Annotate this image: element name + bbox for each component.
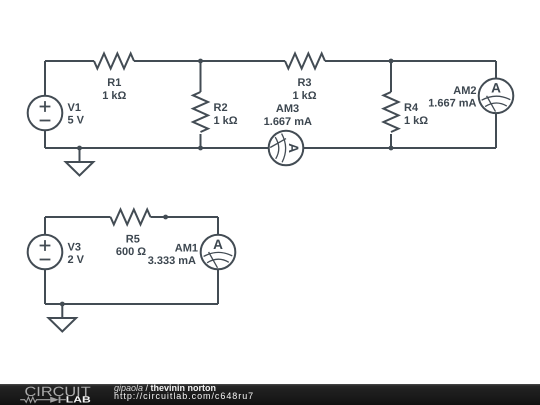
svg-text:R3: R3 — [297, 77, 311, 89]
svg-text:LAB: LAB — [66, 395, 92, 405]
ammeter AM3 — [269, 131, 304, 166]
svg-text:1 kΩ: 1 kΩ — [292, 90, 316, 102]
svg-text:AM2: AM2 — [453, 85, 476, 97]
svg-text:5 V: 5 V — [68, 114, 85, 126]
node dot R5 output — [163, 215, 168, 220]
wire R2 top lead — [200, 61, 202, 92]
svg-text:R1: R1 — [107, 77, 121, 89]
wire bottom rail of lower loop — [45, 303, 218, 305]
svg-text:A: A — [213, 237, 223, 252]
svg-text:R4: R4 — [404, 102, 419, 114]
wire AM1 top lead — [217, 217, 219, 235]
ammeter AM1 — [201, 235, 236, 270]
svg-text:A: A — [491, 81, 501, 96]
wire V1 bottom lead — [44, 130, 46, 148]
wire R2 bottom lead — [200, 134, 202, 148]
ground G2 — [49, 304, 77, 332]
CircuitLab logo — [0, 384, 110, 405]
svg-text:3.333 mA: 3.333 mA — [148, 255, 196, 267]
footer title text — [114, 384, 216, 393]
voltage source V1 — [28, 96, 63, 131]
svg-text:V1: V1 — [68, 102, 81, 114]
wire V3 bottom lead — [44, 269, 46, 304]
svg-text:A: A — [286, 143, 301, 153]
wire R4 bottom lead — [390, 134, 392, 148]
svg-text:1.667 mA: 1.667 mA — [428, 97, 476, 109]
wire AM2 bottom lead — [495, 113, 497, 148]
resistor R4 — [384, 92, 399, 132]
node dot top rail at R4 — [389, 59, 394, 64]
svg-text:1 kΩ: 1 kΩ — [102, 90, 126, 102]
wire top rail R3 to node B — [325, 60, 391, 62]
wire top rail node A to R3 — [201, 60, 286, 62]
svg-text:R5: R5 — [126, 233, 140, 245]
footer bar — [0, 384, 540, 405]
svg-text:AM1: AM1 — [175, 242, 198, 254]
resistor R5 — [111, 210, 151, 225]
wire top rail node B to right corner — [391, 60, 496, 62]
wire bottom rail right of AM3 — [303, 147, 496, 149]
node dot ground G2 — [60, 302, 65, 307]
svg-text:2 V: 2 V — [68, 254, 85, 266]
wire R4 top lead — [390, 61, 392, 92]
wire AM1 bottom lead — [217, 269, 219, 304]
svg-text:V3: V3 — [68, 241, 81, 253]
wire V1 top lead — [44, 61, 46, 96]
wire top rail V3 to R5 — [45, 216, 111, 218]
wire AM2 top lead — [495, 61, 497, 79]
svg-text:AM3: AM3 — [276, 103, 299, 115]
node dot bottom rail at R4 — [389, 146, 394, 151]
resistor R3 — [285, 54, 325, 69]
wire top rail R5 to AM1 corner — [151, 216, 219, 218]
wire top rail V1 to R1 — [45, 60, 94, 62]
svg-text:R2: R2 — [214, 102, 228, 114]
node dot top rail at R2 — [198, 59, 203, 64]
wire bottom rail left of AM3 — [45, 147, 269, 149]
node dot bottom rail at R2 — [198, 146, 203, 151]
svg-text:1.667 mA: 1.667 mA — [264, 116, 312, 128]
voltage source V3 — [28, 235, 63, 270]
svg-text:1 kΩ: 1 kΩ — [404, 115, 428, 127]
footer url text — [114, 392, 254, 401]
resistor R2 — [193, 92, 208, 132]
ground G1 — [66, 148, 94, 176]
wire top rail R1 to node A — [134, 60, 201, 62]
ammeter AM2 — [479, 79, 514, 114]
svg-text:600 Ω: 600 Ω — [116, 246, 146, 258]
node dot ground G1 — [77, 146, 82, 151]
svg-text:1 kΩ: 1 kΩ — [214, 115, 238, 127]
resistor R1 — [94, 54, 134, 69]
wire V3 top lead — [44, 217, 46, 235]
